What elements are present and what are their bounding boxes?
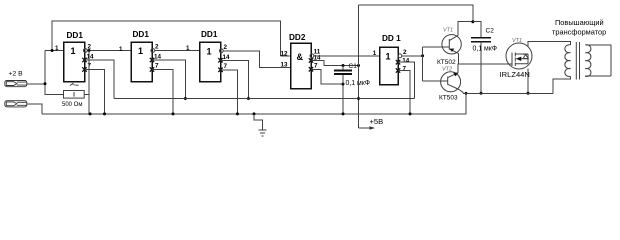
pin 11 bubble bbox=[310, 54, 314, 58]
connector X1 (+2 V input) bbox=[5, 81, 27, 87]
node pin14 rail junction bbox=[247, 97, 250, 100]
node bus junction DD1.3 pin7 bbox=[236, 112, 239, 115]
pin 14 x-mark bbox=[218, 58, 222, 62]
svg-text:1: 1 bbox=[71, 46, 76, 56]
svg-text:&: & bbox=[297, 52, 304, 62]
primary winding bbox=[565, 45, 571, 77]
svg-text:0,1 мкФ: 0,1 мкФ bbox=[473, 46, 497, 53]
pin 2 bubble bbox=[398, 54, 402, 58]
svg-text:7: 7 bbox=[224, 63, 228, 70]
op DD1.2 inverter bbox=[131, 30, 152, 81]
node pin14 rail junction bbox=[184, 97, 187, 100]
node feedback/input junction bbox=[51, 49, 54, 52]
node top rail junction bbox=[471, 20, 474, 23]
wire base VT2 bbox=[423, 80, 448, 82]
op DD1.1 inverter bbox=[64, 31, 85, 82]
wire VT2 emitter up to gate node bbox=[457, 64, 460, 73]
wire gate3 pin14 to +5V rail bbox=[221, 60, 249, 98]
wire VT1 collector up bbox=[458, 22, 479, 36]
svg-text:14: 14 bbox=[402, 58, 410, 65]
connector X2 (return) bbox=[5, 101, 27, 107]
svg-text:+5В: +5В bbox=[370, 117, 384, 126]
transformer T1 step-up bbox=[552, 18, 606, 80]
wire gate1 pin14 to +5V rail bbox=[85, 60, 115, 99]
wire DD2 pin11 to gate4 input bbox=[314, 55, 380, 57]
pin 14 x-mark bbox=[396, 60, 400, 64]
node bus junction DD1.2 pin7 bbox=[172, 112, 175, 115]
node bus junction DD1.4 pin7 bbox=[409, 112, 412, 115]
wire +5V rail bbox=[114, 98, 414, 100]
pin 7 x-mark bbox=[150, 67, 154, 71]
node +5V rail junction bbox=[357, 97, 360, 100]
svg-text:14: 14 bbox=[223, 54, 231, 61]
node C2 bottom junction bbox=[480, 92, 483, 95]
node bus junction DD2 pin7 bbox=[342, 112, 345, 115]
pin 14 x-mark bbox=[309, 58, 313, 62]
wire gate1 output down to bus bbox=[88, 51, 90, 114]
wire DD2 pin7 to bus bbox=[311, 69, 343, 114]
wire DD2 pin14 to +5V node bbox=[311, 61, 359, 66]
svg-text:7: 7 bbox=[155, 63, 159, 70]
svg-text:0,1 мкФ: 0,1 мкФ bbox=[346, 80, 370, 87]
svg-text:500 Ом: 500 Ом bbox=[62, 102, 82, 108]
wire primary top lead bbox=[567, 42, 571, 45]
svg-text:трансформатор: трансформатор bbox=[552, 28, 606, 37]
wire resistor to output node bbox=[84, 93, 89, 95]
pin 14 x-mark bbox=[82, 58, 86, 62]
node C1 tap bbox=[342, 64, 345, 67]
transistor VT3 IRLZ44N mosfet bbox=[500, 38, 533, 79]
wire secondary bottom lead bbox=[585, 75, 611, 77]
op DD1.4 inverter bbox=[380, 34, 402, 85]
svg-text:12: 12 bbox=[281, 50, 289, 57]
wire top feedback rail bbox=[52, 21, 280, 56]
wire DD2 pin12 from feedback rail bbox=[281, 55, 291, 57]
svg-text:DD1: DD1 bbox=[133, 30, 150, 39]
pin 7 x-mark bbox=[309, 67, 313, 71]
power +5V arrow bbox=[359, 127, 372, 129]
wire ground bus bbox=[42, 93, 466, 114]
op DD1.3 inverter bbox=[200, 30, 221, 82]
capacitor C2 bbox=[471, 22, 491, 94]
wire gate2 output to gate3 bbox=[155, 50, 200, 52]
pin 7 x-mark bbox=[396, 68, 400, 72]
wire gate1 output to gate2 bbox=[87, 50, 131, 52]
wire primary bottom lead bbox=[553, 76, 571, 93]
wire top supply rail bbox=[359, 5, 473, 22]
svg-text:1: 1 bbox=[386, 52, 391, 62]
node source line left junction bbox=[465, 92, 468, 95]
svg-text:+2 В: +2 В bbox=[9, 71, 24, 78]
svg-text:C2: C2 bbox=[486, 28, 495, 35]
squiggle mark under DD1.1 bbox=[70, 83, 79, 86]
svg-text:1: 1 bbox=[207, 46, 212, 56]
svg-text:2: 2 bbox=[403, 49, 407, 56]
wire gate3 output to DD2 pin13 bbox=[223, 51, 290, 68]
node gate1 output bbox=[88, 49, 91, 52]
wire gate4 output to base branch bbox=[402, 55, 423, 57]
secondary winding bbox=[585, 45, 591, 77]
transistor VT1 KT502 bbox=[437, 28, 461, 66]
svg-text:VT1: VT1 bbox=[443, 28, 453, 34]
node bus junction DD1.1 pin7 bbox=[103, 112, 106, 115]
wire gate1 input bbox=[45, 50, 64, 52]
svg-text:7: 7 bbox=[314, 63, 318, 70]
svg-text:1: 1 bbox=[119, 46, 123, 53]
svg-text:DD2: DD2 bbox=[289, 33, 306, 42]
wire VT2 collector to source line bbox=[459, 90, 463, 94]
pin 2 bubble bbox=[83, 49, 87, 53]
wire gate1 input branch bbox=[45, 51, 64, 95]
svg-text:С1: С1 bbox=[349, 63, 358, 70]
wire +5V vertical bbox=[358, 5, 360, 128]
wire mosfet drain up bbox=[528, 42, 567, 47]
wire base VT1 bbox=[423, 46, 450, 48]
svg-text:1: 1 bbox=[55, 45, 59, 52]
svg-text:DD 1: DD 1 bbox=[382, 34, 401, 43]
node base branch junction bbox=[421, 54, 424, 57]
svg-text:2: 2 bbox=[155, 44, 159, 51]
node +2V junction bbox=[44, 82, 47, 85]
svg-text:14: 14 bbox=[154, 54, 162, 61]
wire gate4 pin14 to +5V rail end bbox=[398, 62, 414, 98]
svg-text:КТ502: КТ502 bbox=[437, 59, 456, 66]
node bus junction DD1.1 output leg bbox=[89, 112, 92, 115]
svg-text:13: 13 bbox=[281, 62, 289, 69]
svg-text:КТ503: КТ503 bbox=[439, 95, 458, 102]
svg-text:7: 7 bbox=[403, 65, 407, 72]
wire gate3 pin7 to bus bbox=[221, 70, 238, 114]
pin 2 bubble bbox=[151, 49, 155, 53]
wire bases vertical bbox=[422, 47, 424, 81]
resistor R1 500 Om bbox=[64, 91, 85, 99]
svg-text:1: 1 bbox=[373, 50, 377, 57]
pin 7 x-mark bbox=[218, 68, 222, 72]
svg-text:1: 1 bbox=[138, 46, 143, 56]
wire gate2 pin14 to +5V rail bbox=[152, 60, 185, 99]
svg-text:Повышающий: Повышающий bbox=[555, 18, 604, 27]
node C1 bottom junction bbox=[342, 83, 345, 86]
pin 7 x-mark bbox=[82, 67, 86, 71]
ground bbox=[253, 112, 267, 135]
op DD2 NAND gate bbox=[289, 33, 311, 89]
wire source line bbox=[463, 92, 553, 94]
svg-text:IRLZ44N: IRLZ44N bbox=[500, 70, 530, 79]
node source junction bbox=[527, 92, 530, 95]
wire mosfet gate line bbox=[458, 63, 512, 65]
wire gate4 pin7 to bus bbox=[398, 71, 410, 114]
wire from X2 to ground bus bbox=[27, 104, 42, 114]
wire gate1 pin7 to bus bbox=[85, 70, 105, 114]
wire secondary top lead bbox=[585, 45, 611, 76]
svg-text:DD1: DD1 bbox=[201, 30, 218, 39]
wire from X1 bbox=[27, 83, 45, 85]
svg-text:DD1: DD1 bbox=[67, 31, 84, 40]
pin 14 x-mark bbox=[150, 58, 154, 62]
transistor VT2 KT503 bbox=[439, 66, 461, 101]
wire gate2 pin7 to bus bbox=[152, 70, 173, 114]
pin 2 bubble bbox=[219, 49, 223, 53]
capacitor C1 bbox=[334, 66, 352, 85]
svg-text:1: 1 bbox=[186, 45, 190, 52]
core bbox=[576, 42, 579, 80]
node +5V vertical tap bbox=[357, 64, 360, 67]
svg-text:2: 2 bbox=[224, 44, 228, 51]
wire mosfet source down bbox=[527, 69, 529, 94]
svg-text:14: 14 bbox=[87, 54, 95, 61]
wire VT1 emitter down to gate node bbox=[458, 53, 460, 64]
